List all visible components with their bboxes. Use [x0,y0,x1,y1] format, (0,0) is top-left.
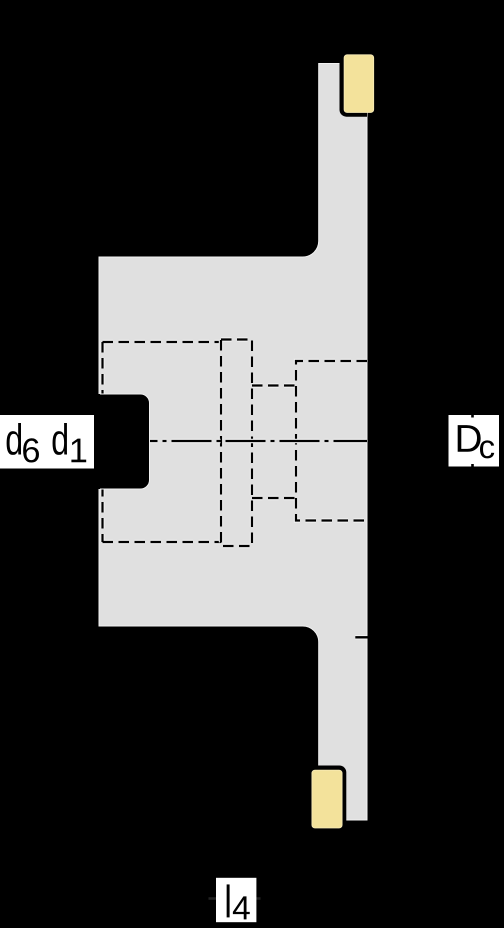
label text d6 [7,423,21,455]
Dc dimension line ticks [471,410,474,472]
label text d1 [53,423,67,455]
cutter body (grey cross-section) [99,64,367,821]
pocket parting tick on right edge [355,635,366,640]
label box l4 [216,878,256,922]
hidden bore outline (wide dashed rectangle) [103,342,222,542]
label box Dc [449,415,500,467]
insert bottom (yellow carbide) [312,770,342,828]
hidden step connectors (short dashed lines) [252,386,296,499]
l4 dimension line ticks (faint) [209,897,261,900]
insert pocket bottom (black seat) [315,766,346,833]
hidden counterbore (right dashed rectangle) [296,361,367,521]
insert pocket top (black seat) [340,48,368,117]
label box d6 d1 [0,415,94,469]
label text l4 [227,884,230,917]
centerline (dash-dot axis) [150,439,368,443]
hidden groove (narrow tall dashed rectangle) [221,340,252,547]
insert top (yellow carbide) [344,55,374,113]
label text Dc [458,425,481,452]
